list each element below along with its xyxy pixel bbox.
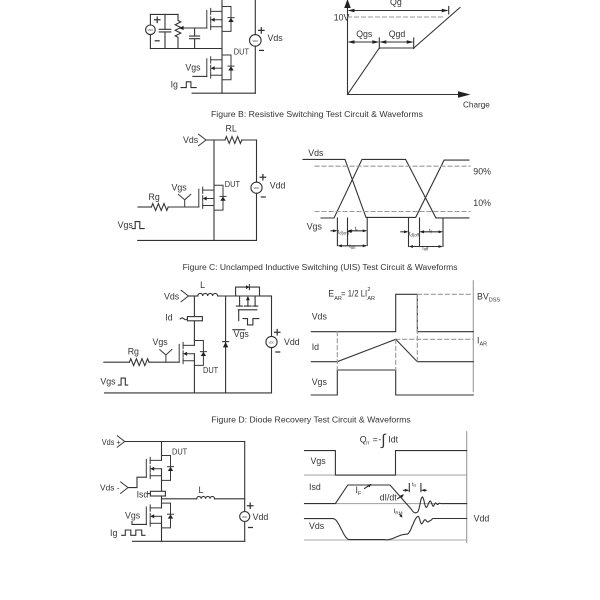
10V dashed level [348, 16, 444, 18]
gray ref: Vgs low [305, 474, 467, 476]
wire: Vds source branch upper [254, 0, 256, 35]
transistor DUT (fig D upper) [146, 456, 173, 481]
label - [249, 527, 253, 529]
wire: top rail [125, 441, 245, 443]
label - [261, 196, 265, 198]
wire: left rail below source [149, 35, 151, 49]
resistor RL [225, 137, 242, 144]
wire: right branch down [244, 442, 246, 512]
svg-text:Vds: Vds [164, 291, 180, 301]
svg-text:Vds -: Vds - [100, 484, 120, 493]
capacitor C1 [159, 14, 171, 48]
IRM arrow [400, 515, 401, 517]
wire: DUT drain branch [213, 140, 215, 199]
voltage source Vdd (VDC) [266, 336, 277, 347]
label - [276, 351, 280, 353]
td(off) arrows [401, 231, 407, 233]
Isd lead tick [147, 493, 150, 495]
svg-text:RL: RL [226, 123, 237, 133]
svg-text:dI/dt: dI/dt [380, 492, 398, 502]
wire: bottom rail [138, 239, 257, 241]
IF arrow [365, 485, 371, 489]
waveform: Vds trace [305, 516, 467, 540]
svg-text:VDC: VDC [148, 28, 154, 32]
label + [248, 503, 253, 508]
svg-text:VDC: VDC [242, 515, 248, 519]
wire: DUT drain branch [161, 442, 163, 461]
wire: left rail above source VDC [149, 14, 151, 25]
Vgs pulse glyph [132, 222, 144, 229]
waveform: right axis [466, 432, 468, 543]
svg-text:Vds: Vds [312, 312, 328, 322]
wire: gate-drive loop top rail [150, 13, 178, 15]
svg-text:Figure D: Diode Recovery Test: Figure D: Diode Recovery Test Circuit & … [211, 414, 411, 424]
transistor DUT (fig A) [207, 55, 234, 80]
svg-text:Vgs: Vgs [312, 377, 328, 387]
wire: Q3 source to bottom rail [161, 516, 163, 541]
svg-text:= 1/2 LI: = 1/2 LI [341, 289, 367, 299]
current sense Id rectangle [187, 317, 202, 321]
svg-text:L: L [199, 485, 204, 495]
tr arrow [350, 230, 366, 232]
svg-text:BVDSS: BVDSS [477, 291, 500, 303]
wire: clamp FET rail [236, 295, 260, 297]
90% dashed level [315, 165, 470, 167]
svg-text:Vgs: Vgs [153, 337, 169, 347]
waveform: Vds trace [303, 159, 469, 217]
wire: Vds source branch lower [254, 46, 256, 93]
Q2 body arrow [247, 300, 249, 306]
wire: below Vdd [244, 522, 246, 542]
svg-text:IRM: IRM [394, 508, 403, 516]
Q2 gate lead [238, 310, 240, 321]
Vgs pulse glyph [118, 378, 127, 385]
timing vertical t6 [442, 218, 444, 247]
wire: below Vdd to bottom rail [256, 193, 258, 240]
waveform: Vgs trace [305, 451, 467, 476]
ton arrow [339, 245, 365, 247]
svg-text:Vdd: Vdd [284, 337, 300, 347]
label + [260, 175, 265, 180]
wire: DUT source to bottom rail [213, 199, 215, 241]
svg-text:trr: trr [412, 482, 417, 488]
svg-text:Vds: Vds [268, 33, 284, 43]
wire: top node to RL [206, 139, 225, 141]
svg-text:td(off): td(off) [409, 232, 421, 238]
wire: gate-drive loop bottom rail [150, 48, 222, 50]
svg-text:Charge: Charge [463, 101, 490, 110]
wire: probe to inductor [189, 295, 198, 297]
svg-text:VDC: VDC [252, 39, 258, 43]
svg-text:Vgs: Vgs [100, 376, 116, 386]
svg-text:Vds: Vds [183, 135, 199, 145]
wire: DUT source rail to bottom [221, 68, 223, 93]
timing vertical t5 [419, 218, 421, 247]
transistor DUT (fig C) [179, 341, 206, 366]
potentiometer R1 [175, 14, 181, 48]
inverted gate pulse glyph [243, 319, 259, 325]
gate charge waveform: y axis [347, 6, 349, 95]
timing vertical t4 [408, 218, 410, 247]
svg-text:DUT: DUT [203, 366, 218, 375]
svg-text:10V: 10V [334, 12, 350, 22]
dashed vertical v1 [336, 332, 338, 370]
svg-text:Vgs: Vgs [234, 329, 250, 339]
trr ticks [409, 484, 421, 492]
Qgd dimension arrow [381, 41, 411, 43]
svg-text:Rg: Rg [149, 192, 160, 202]
Id squiggle lead [180, 318, 187, 320]
wire: drain rail of Q1 to top edge [221, 0, 223, 20]
wire: right branch down to Vdd [256, 140, 258, 182]
svg-text:Vds: Vds [308, 148, 324, 158]
wire: DUT gate stair to Vds- [128, 477, 146, 487]
Vds- probe chevron [121, 482, 128, 493]
svg-text:Isd: Isd [309, 482, 321, 492]
wire: right branch down [271, 296, 273, 336]
Qgs/Qgd tick [378, 38, 380, 49]
resistor Rg [151, 204, 168, 211]
svg-text:DUT: DUT [172, 448, 187, 457]
svg-text:Qgs: Qgs [356, 29, 373, 39]
label + [259, 28, 264, 33]
wire: inductor to right branch [215, 498, 245, 500]
trr arrows [403, 489, 407, 491]
svg-text:rr: rr [366, 440, 370, 446]
resistor Rg [129, 359, 149, 366]
svg-text:Isd: Isd [137, 490, 149, 500]
svg-text:Vgs: Vgs [311, 456, 327, 466]
svg-text:Vds +: Vds + [102, 438, 121, 447]
IAR dashed level [396, 338, 474, 340]
toff arrow [411, 246, 442, 248]
Vgs probe (Y) [160, 349, 172, 362]
svg-text:Vgs: Vgs [172, 182, 188, 192]
svg-text:Vgs: Vgs [307, 221, 323, 231]
wire: pot wiper to gate of Q1 [183, 27, 206, 29]
voltage source VDC (gate bias) [146, 25, 156, 35]
waveform: Vds trace [311, 294, 473, 331]
Q2 body diode loop [236, 287, 260, 296]
svg-text:=: = [373, 435, 378, 445]
wire: below Vdd [271, 348, 273, 393]
svg-text:toff: toff [422, 245, 429, 251]
svg-text:Qgd: Qgd [389, 29, 406, 39]
inductor L [198, 293, 218, 296]
svg-text:td(on): td(on) [338, 230, 350, 236]
voltage source Vds (VDC) [250, 35, 262, 47]
Ig pulse glyph [181, 82, 196, 88]
wire: Q3 gate lead [132, 522, 146, 525]
svg-text:IAR: IAR [477, 335, 487, 347]
svg-text:Vgs: Vgs [185, 63, 201, 73]
Qg end tick [448, 7, 450, 15]
timing vertical t3 [366, 217, 368, 245]
svg-text:Id: Id [312, 342, 319, 352]
wire: Rg to gate [149, 361, 179, 363]
svg-text:DUT: DUT [225, 180, 240, 189]
svg-text:Qg: Qg [390, 0, 402, 7]
svg-text:VDC: VDC [254, 186, 260, 190]
wire: DUT source down through sense [161, 469, 163, 508]
voltage source Vdd (VDC) [251, 182, 262, 193]
svg-text:Idt: Idt [388, 435, 398, 445]
transistor DUT (fig B) [199, 185, 226, 210]
wire: gate wire from Rg [138, 206, 151, 208]
wire: inductor to clamp [218, 295, 236, 297]
tf arrow [422, 231, 442, 233]
gray ref: Vds low [305, 539, 467, 541]
dashed vertical v3 [416, 294, 418, 361]
label - [260, 49, 264, 51]
td(on) arrows [331, 230, 336, 232]
label + [275, 330, 280, 335]
Ig double pulse glyph [122, 530, 145, 535]
dl/dt arrow [398, 495, 403, 498]
svg-text:AR: AR [367, 296, 375, 302]
svg-text:Rg: Rg [128, 347, 139, 357]
waveform: right axis [472, 281, 474, 392]
inductor L [197, 496, 215, 498]
svg-text:Vgs: Vgs [125, 510, 141, 520]
svg-text:∫: ∫ [380, 432, 387, 449]
svg-text:90%: 90% [473, 166, 491, 176]
clamp diode branch (freewheel diode D1) [225, 296, 227, 393]
Qgs dimension arrow [350, 41, 378, 43]
svg-text:L: L [200, 280, 205, 290]
current sense Isd rectangle [150, 491, 165, 496]
wire: node to inductor [162, 498, 197, 500]
svg-text:Id: Id [165, 312, 172, 322]
voltage source Vdd (VDC) [240, 512, 250, 522]
wire: Rg to gate [168, 206, 199, 208]
svg-text:Ig: Ig [110, 528, 117, 538]
Qgd end tick [413, 38, 415, 49]
Q2 channel dashes [236, 305, 257, 307]
timing vertical t1 [336, 218, 338, 246]
svg-text:Figure B: Resistive Switching: Figure B: Resistive Switching Test Circu… [211, 109, 424, 119]
Vgs probe (Y) [179, 194, 191, 207]
svg-text:Vdd: Vdd [253, 512, 269, 522]
transistor Q3 (fig D lower) [146, 503, 173, 528]
wire: bottom rail [133, 540, 245, 542]
svg-text:2: 2 [367, 287, 370, 293]
wire: bottom return [192, 92, 255, 94]
capacitor C2 [190, 28, 200, 49]
dashed vertical v2 [395, 339, 397, 370]
gray ref: Isd zero [335, 503, 466, 505]
wire: DUT gate lead [193, 75, 207, 77]
waveform: Vgs trace [311, 370, 473, 395]
transistor Q2 (clamp MOSFET, horizontal) leads [240, 296, 256, 306]
waveform: Id trace [311, 339, 473, 361]
waveform: Vgs trace [321, 159, 469, 218]
label + [155, 17, 160, 22]
svg-text:Ig: Ig [171, 80, 178, 90]
pot wiper arrow [179, 26, 184, 30]
BV dashed level [417, 293, 473, 295]
wire: DUT drain branch [193, 296, 195, 345]
svg-text:Vdd: Vdd [270, 180, 286, 190]
10% dashed level [315, 211, 470, 213]
timing vertical t2 [347, 218, 349, 246]
transistor Q1 (driver MOSFET) [207, 7, 234, 32]
wire: bottom rail [105, 392, 272, 394]
Vds+ probe chevron [117, 436, 124, 447]
Vds probe chevron [199, 134, 206, 145]
svg-text:ton: ton [349, 244, 356, 250]
label - [155, 40, 159, 42]
wire: RL to right branch [242, 139, 257, 141]
svg-text:tr: tr [355, 226, 359, 232]
Vds probe chevron [181, 290, 188, 301]
svg-text:IF: IF [356, 485, 362, 497]
wire: clamp to right branch [260, 295, 272, 297]
wire: DUT source to bottom rail [193, 354, 195, 393]
wire: gate wire from left [104, 361, 130, 363]
svg-text:DUT: DUT [234, 48, 249, 57]
Q2 gate bar [238, 309, 257, 311]
svg-text:VDC: VDC [269, 341, 275, 345]
svg-text:Vgs: Vgs [118, 220, 134, 230]
svg-text:Figure C: Unclamped Inductive: Figure C: Unclamped Inductive Switching … [183, 262, 458, 272]
svg-text:10%: 10% [473, 198, 491, 208]
Qg dimension arrow [350, 10, 447, 12]
x axis [348, 94, 459, 96]
waveform: Isd trace [305, 485, 467, 513]
wire: Q1 source rail down to DUT drain [221, 20, 223, 68]
svg-text:Vds: Vds [309, 521, 325, 531]
gate charge curve [348, 8, 461, 95]
svg-text:Vdd: Vdd [474, 513, 490, 523]
